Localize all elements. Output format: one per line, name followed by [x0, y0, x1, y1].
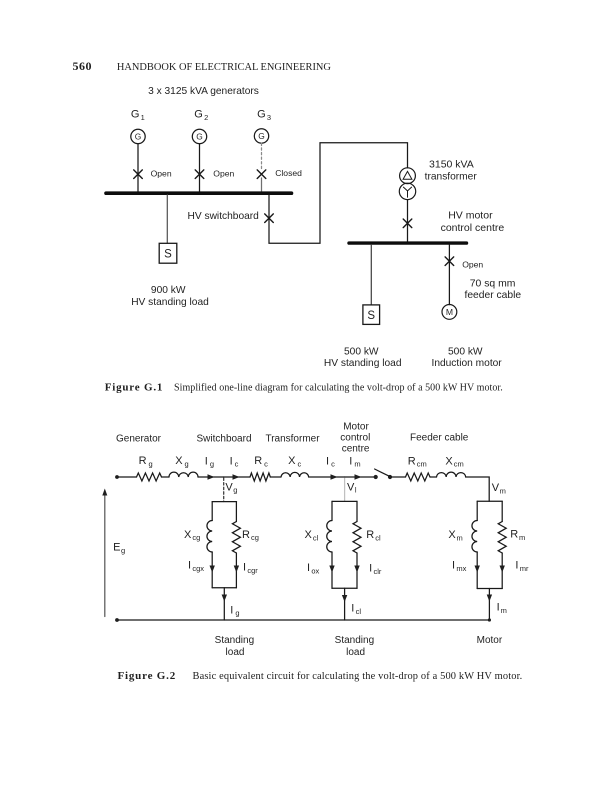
svg-text:HV standing load: HV standing load — [131, 297, 209, 308]
svg-text:Rcm: Rcm — [408, 455, 427, 468]
inductor Xcl — [327, 521, 332, 553]
svg-text:G: G — [258, 131, 265, 141]
svg-text:Iclr: Iclr — [369, 563, 382, 576]
breaker X on switchboard outgoing feeder — [265, 214, 274, 223]
wire Xc to node Vl — [309, 476, 345, 478]
node bottom-right — [488, 618, 491, 621]
caption Figure G.1 — [105, 381, 503, 393]
wire Rg to Xg — [162, 476, 170, 478]
branch1 left leg upper — [211, 502, 213, 521]
wire Rc to Xc — [270, 476, 281, 478]
inductor Xg — [169, 472, 198, 477]
column header Motor control centre — [340, 421, 370, 454]
branch1 left leg lower — [211, 552, 213, 588]
node bottom-left — [115, 618, 119, 622]
svg-text:M: M — [446, 307, 453, 317]
svg-text:Xm: Xm — [448, 529, 462, 542]
current arrow Icl down — [342, 595, 347, 602]
breaker X G3 — [257, 170, 266, 179]
HV motor control centre busbar — [349, 241, 467, 244]
label HV motor control centre — [441, 210, 505, 235]
svg-text:500 kW: 500 kW — [448, 346, 483, 357]
svg-text:Switchboard: Switchboard — [196, 434, 251, 445]
switch contact left — [374, 475, 378, 479]
wire G2 to busbar — [199, 144, 201, 192]
svg-text:Rm: Rm — [510, 529, 525, 542]
current arrow Ig down — [222, 595, 227, 602]
svg-text:3 x 3125 kVA generators: 3 x 3125 kVA generators — [148, 86, 259, 97]
svg-text:Xcl: Xcl — [305, 529, 319, 542]
svg-text:500 kW: 500 kW — [344, 346, 379, 357]
svg-text:S: S — [164, 249, 172, 261]
breaker X motor feeder — [445, 257, 454, 266]
caption Figure G.2 — [118, 670, 523, 682]
svg-text:Xg: Xg — [175, 455, 189, 468]
branch1 drop to rail — [223, 588, 225, 620]
svg-text:Figure G.2: Figure G.2 — [118, 670, 177, 682]
wire top-left — [117, 476, 137, 478]
svg-text:Closed: Closed — [275, 168, 302, 178]
breaker X G2 — [195, 170, 204, 179]
svg-text:Rcl: Rcl — [366, 529, 381, 542]
wire G1 to busbar — [137, 144, 139, 192]
svg-text:Ic: Ic — [326, 455, 335, 468]
inductor Xm — [472, 521, 477, 553]
current arrow Im down — [487, 595, 492, 602]
current arrow Ig — [208, 474, 215, 479]
branch2 box bottom — [332, 587, 357, 589]
label 900 kW HV standing load — [131, 285, 209, 308]
svg-text:Icgr: Icgr — [243, 562, 258, 575]
motor branch box top — [477, 500, 502, 502]
wire Rcm to Xcm — [430, 476, 437, 478]
svg-text:Iox: Iox — [307, 562, 320, 575]
svg-text:Standing: Standing — [215, 635, 254, 646]
svg-text:Feeder cable: Feeder cable — [410, 433, 469, 444]
node Vg dashed tap — [223, 478, 225, 502]
svg-text:Xcg: Xcg — [184, 529, 200, 542]
svg-text:560: 560 — [73, 59, 93, 73]
svg-text:Motor: Motor — [343, 421, 369, 432]
svg-text:HV switchboard: HV switchboard — [188, 211, 260, 222]
standing load box S2 — [363, 305, 380, 325]
svg-text:Icl: Icl — [351, 603, 361, 616]
resistor Rcl — [353, 522, 361, 554]
svg-text:Imr: Imr — [515, 560, 529, 573]
resistor Rc — [250, 473, 270, 481]
svg-text:Xc: Xc — [288, 455, 301, 468]
branch3 left leg lower — [476, 552, 478, 589]
branch3 right leg lower — [501, 553, 503, 589]
svg-text:Icgx: Icgx — [188, 560, 204, 573]
svg-text:Eg: Eg — [113, 542, 125, 555]
branch2 right leg lower — [356, 553, 358, 588]
switch blade — [375, 469, 390, 477]
wire MCC busbar to standing-load box S2 — [370, 245, 372, 305]
svg-text:HANDBOOK OF ELECTRICAL ENGINEE: HANDBOOK OF ELECTRICAL ENGINEERING — [117, 62, 332, 73]
svg-text:Imx: Imx — [452, 560, 467, 573]
branch3 box bottom — [477, 588, 502, 590]
svg-text:Vg: Vg — [225, 481, 237, 494]
svg-text:70 sq mm: 70 sq mm — [470, 278, 516, 289]
svg-text:centre: centre — [342, 444, 370, 455]
branch2 drop to rail — [344, 588, 346, 620]
current arrow Im — [355, 474, 362, 479]
wire MCC busbar to motor M — [448, 245, 450, 305]
current arrow Imx — [475, 566, 480, 573]
standing load box S1 — [159, 243, 177, 263]
resistor Rcg — [232, 522, 240, 554]
branch2 left leg upper — [331, 501, 333, 520]
current arrow Imr — [500, 566, 505, 573]
wire G3 to busbar (upper part dashed) — [261, 143, 263, 192]
generator G1 symbol — [131, 129, 145, 143]
svg-text:Standing: Standing — [335, 635, 374, 646]
svg-text:Generator: Generator — [116, 434, 162, 445]
inductor Xcm — [437, 472, 466, 477]
inductor Xcg — [207, 521, 212, 553]
label Standing load 1 — [215, 635, 254, 658]
wire transformer to MCC busbar — [407, 200, 409, 242]
svg-text:G2: G2 — [194, 109, 208, 122]
generator G2 symbol — [192, 129, 206, 143]
svg-text:Rcg: Rcg — [242, 529, 259, 542]
current arrow Ic — [233, 474, 240, 479]
wire busbar to standing-load box S1 — [166, 195, 168, 243]
svg-text:G: G — [196, 132, 203, 142]
label 3150 kVA transformer — [425, 158, 478, 182]
svg-text:HV motor: HV motor — [448, 210, 493, 222]
svg-text:Ig: Ig — [230, 604, 239, 617]
svg-text:Ig: Ig — [205, 455, 214, 468]
svg-text:Induction motor: Induction motor — [431, 358, 502, 369]
label Standing load 2 — [335, 635, 374, 658]
svg-text:Im: Im — [349, 455, 360, 468]
svg-text:Ic: Ic — [230, 455, 239, 468]
svg-text:3150 kVA: 3150 kVA — [429, 158, 474, 170]
svg-text:control centre: control centre — [441, 222, 505, 234]
svg-text:load: load — [346, 647, 365, 658]
svg-text:Transformer: Transformer — [265, 434, 320, 445]
svg-text:Simplified one-line diagram fo: Simplified one-line diagram for calculat… — [174, 382, 503, 393]
branch3 right leg upper — [501, 501, 503, 521]
svg-text:feeder cable: feeder cable — [464, 290, 521, 301]
label 70 sq mm feeder cable — [464, 278, 521, 300]
svg-text:G: G — [135, 132, 142, 142]
wire Vg to Rc — [224, 476, 250, 478]
svg-text:Basic equivalent circuit for c: Basic equivalent circuit for calculating… — [193, 671, 523, 682]
wire Xcm to corner Vm — [466, 477, 490, 501]
svg-text:Figure G.1: Figure G.1 — [105, 381, 164, 393]
current arrow Iclr — [354, 566, 359, 573]
svg-text:Open: Open — [462, 260, 483, 270]
svg-text:Vl: Vl — [347, 481, 357, 494]
svg-text:Open: Open — [151, 168, 172, 178]
inductor Xc — [281, 472, 309, 477]
branch2 left leg lower — [331, 552, 333, 588]
induction motor M symbol — [442, 305, 457, 320]
svg-text:900 kW: 900 kW — [151, 285, 186, 296]
resistor Rcm — [406, 473, 431, 481]
branch3 left leg upper — [476, 501, 478, 520]
svg-text:G3: G3 — [257, 109, 271, 122]
resistor Rm — [498, 522, 506, 554]
current arrow Ic2 — [331, 474, 338, 479]
svg-text:Motor: Motor — [477, 635, 503, 646]
breaker X transformer secondary — [403, 219, 412, 228]
svg-text:Im: Im — [497, 602, 507, 615]
source arrow Eg — [102, 489, 107, 617]
node Vl grey tap — [344, 477, 346, 501]
svg-text:transformer: transformer — [425, 171, 478, 182]
svg-text:G1: G1 — [131, 109, 145, 122]
svg-text:S: S — [367, 310, 375, 322]
breaker X G1 — [134, 170, 143, 179]
wire switch to Rcm — [390, 476, 406, 478]
branch2 right leg upper — [356, 501, 358, 521]
node top-left — [115, 475, 119, 479]
HV switchboard busbar — [106, 191, 292, 195]
current arrow Icgx — [210, 566, 215, 573]
transformer T1 symbol — [399, 168, 415, 200]
branch1 right leg lower — [235, 553, 237, 588]
svg-text:control: control — [340, 433, 370, 444]
wire Vl to switch — [345, 476, 376, 478]
svg-text:Open: Open — [213, 168, 234, 178]
wire Xg to node Vg — [198, 476, 224, 478]
svg-text:Rc: Rc — [254, 455, 268, 468]
resistor Rg — [137, 473, 162, 481]
bottom rail — [117, 619, 489, 621]
generator G3 symbol — [254, 129, 268, 143]
MCC standing-load branch box top — [332, 500, 357, 502]
svg-text:load: load — [226, 647, 245, 658]
svg-text:Xcm: Xcm — [445, 455, 463, 468]
branch1 right leg upper — [235, 502, 237, 522]
switch contact right — [388, 475, 392, 479]
page header — [73, 59, 332, 73]
wire busbar feeder to transformer — [269, 143, 408, 243]
branch1 box bottom — [212, 587, 236, 589]
svg-text:Vm: Vm — [492, 482, 506, 495]
branch3 drop to rail — [488, 589, 490, 621]
svg-text:Rg: Rg — [139, 455, 153, 468]
svg-text:HV standing load: HV standing load — [324, 358, 402, 369]
label 500 kW Induction motor — [431, 346, 502, 369]
switchboard standing-load branch box top — [212, 501, 236, 503]
current arrow Iclx — [329, 566, 334, 573]
current arrow Icgr — [234, 566, 239, 573]
label 500 kW HV standing load — [324, 346, 402, 369]
